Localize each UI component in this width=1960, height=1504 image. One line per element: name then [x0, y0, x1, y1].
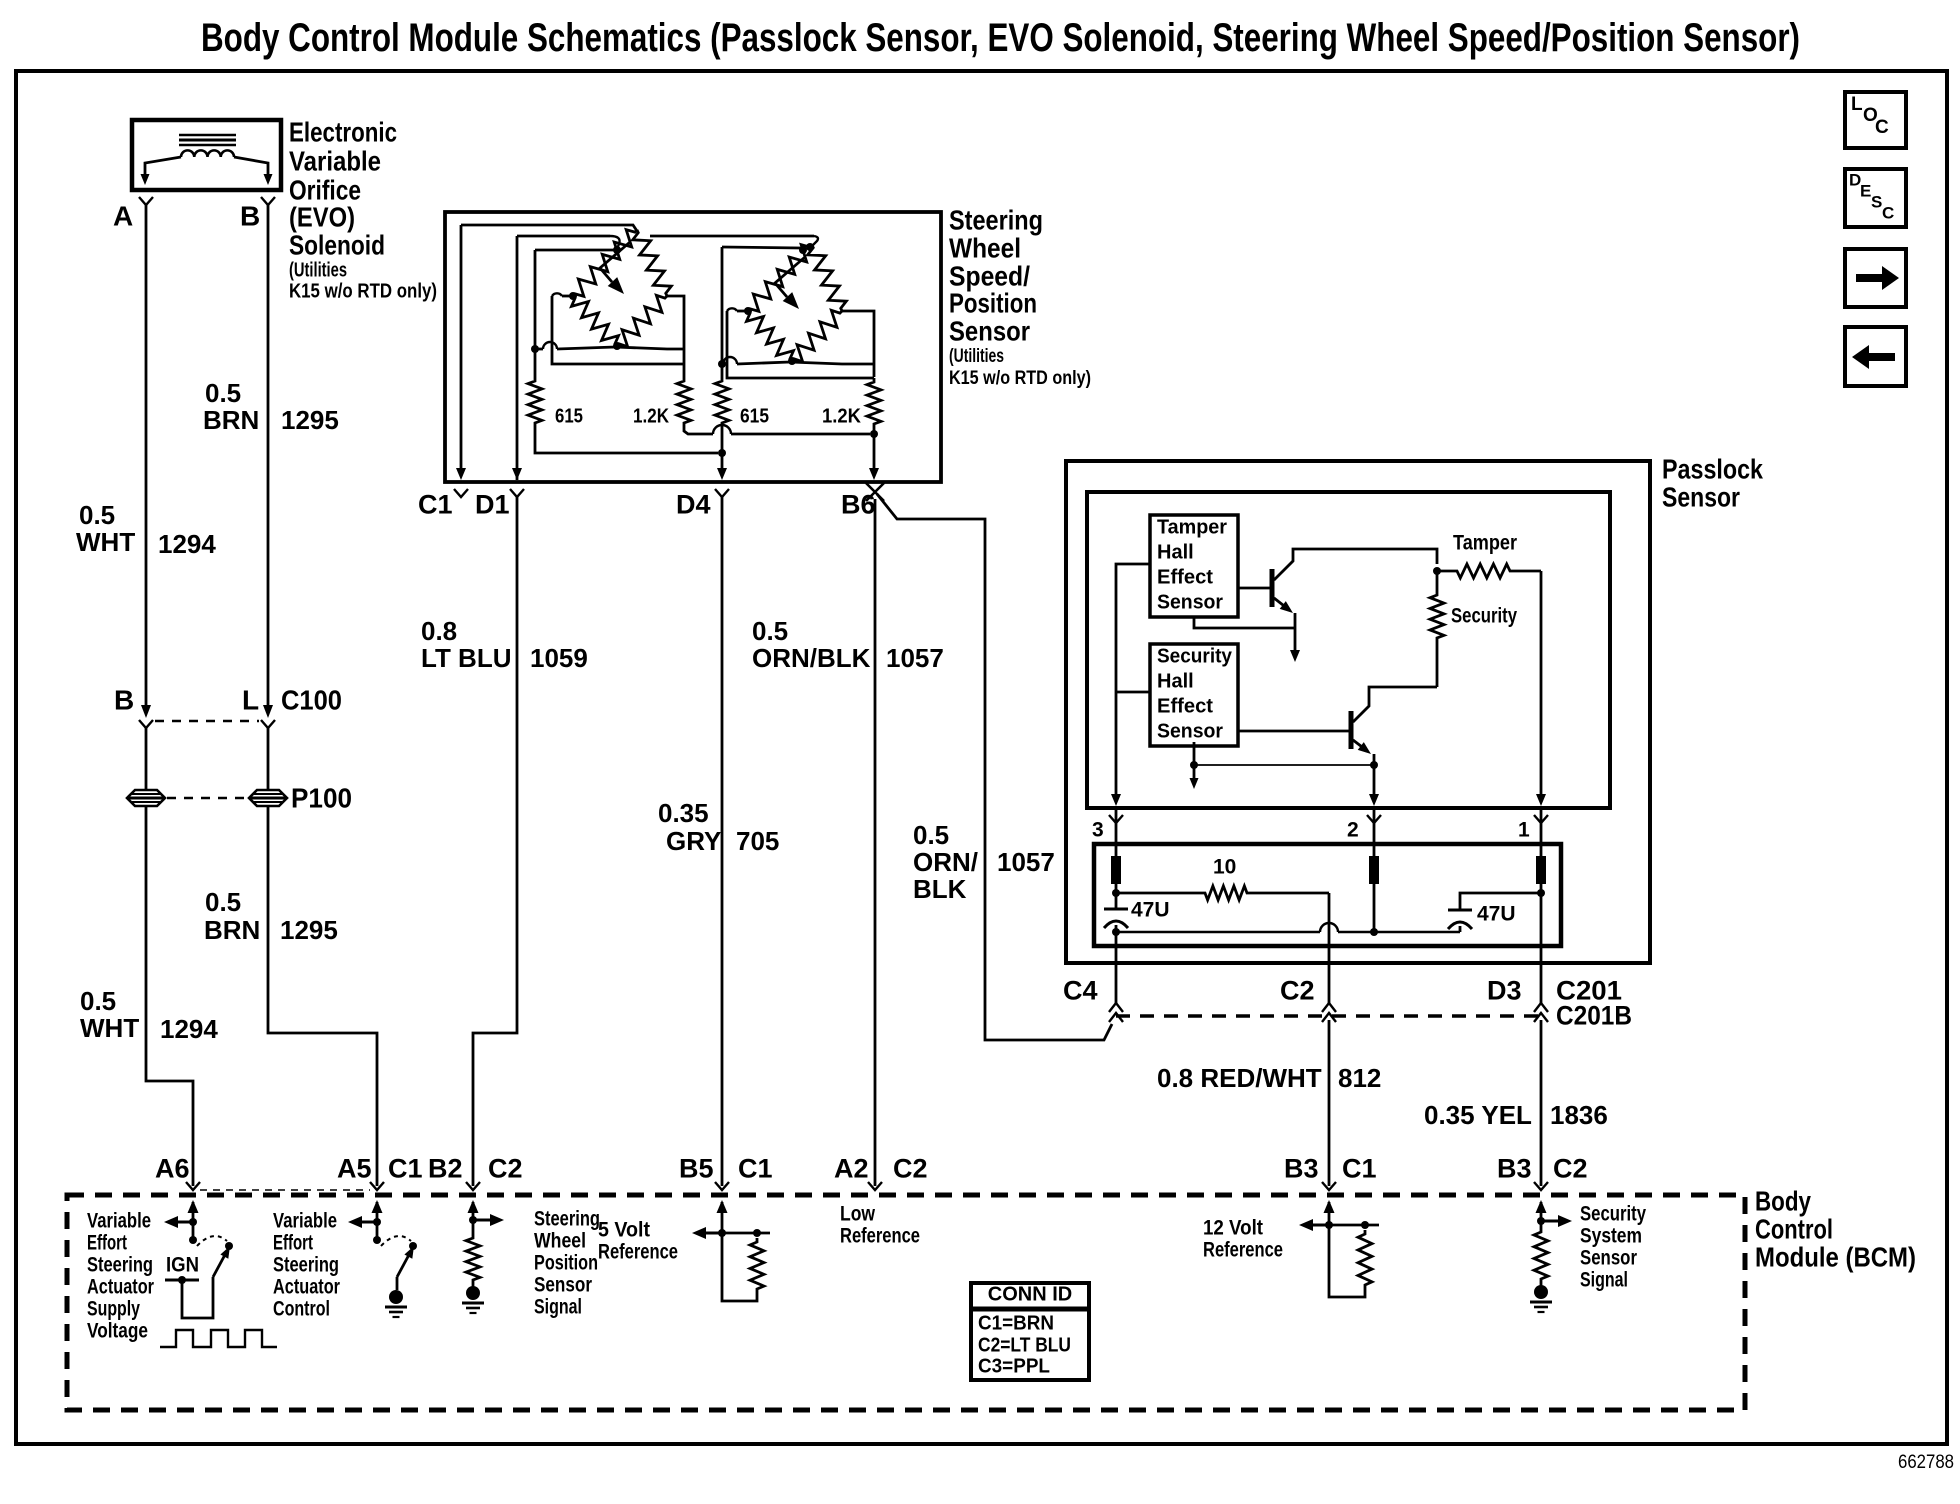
svg-text:47U: 47U — [1477, 902, 1516, 925]
svg-text:1: 1 — [1518, 818, 1530, 841]
label A — [113, 200, 133, 231]
svg-text:Body: Body — [1755, 1185, 1811, 1216]
label C100 — [281, 684, 342, 715]
CONN ID table — [971, 1283, 1089, 1380]
bridge 1 bottom-right resistor — [617, 295, 667, 346]
svg-text:Sensor: Sensor — [534, 1273, 592, 1296]
svg-text:B6: B6 — [841, 490, 876, 520]
passlock pin 1 wire — [1540, 808, 1543, 856]
BCM pin connector A2 — [868, 1182, 882, 1190]
svg-text:C3=PPL: C3=PPL — [978, 1356, 1050, 1378]
connector D4 below box — [715, 489, 729, 497]
label C201B — [1556, 1001, 1632, 1031]
svg-text:Tamper: Tamper — [1453, 531, 1517, 554]
svg-text:C1=BRN: C1=BRN — [978, 1313, 1054, 1335]
label Variable Effort Steering Actuator Control — [273, 1209, 340, 1320]
wire BRN between C100 and P100 — [267, 728, 270, 789]
label 0.5 WHT 1294 upper — [76, 500, 216, 559]
bridge 1 top-right resistor — [633, 230, 672, 296]
bridge 1 wiper arrow — [600, 242, 630, 294]
BCM B3C2 resistor — [1534, 1221, 1548, 1283]
svg-text:CONN ID: CONN ID — [988, 1284, 1072, 1306]
junction pin1 node — [1537, 889, 1545, 897]
svg-text:Security: Security — [1451, 604, 1517, 627]
label Variable Effort Steering Actuator Supply Voltage — [87, 1209, 154, 1342]
svg-text:Tamper: Tamper — [1157, 517, 1227, 539]
bridge 2 top-left resistor — [748, 245, 812, 312]
junction pin2 bottom — [1370, 928, 1378, 936]
svg-text:615: 615 — [740, 406, 769, 428]
svg-text:0.8: 0.8 — [421, 616, 457, 646]
svg-text:C2: C2 — [1280, 976, 1315, 1006]
connector D3 symbol — [1534, 1003, 1548, 1022]
capacitor 47U right — [1448, 910, 1472, 932]
svg-text:Sensor: Sensor — [1580, 1246, 1637, 1269]
BCM A5 ground — [385, 1277, 407, 1317]
wire H3 tap feed — [535, 249, 614, 252]
svg-text:1294: 1294 — [158, 529, 216, 559]
BCM B2 resistor — [466, 1220, 480, 1284]
svg-text:662788: 662788 — [1898, 1452, 1954, 1473]
resistor 615 bridge1 — [528, 377, 542, 427]
svg-text:Actuator: Actuator — [273, 1275, 340, 1298]
junction D4 node — [718, 449, 726, 457]
svg-text:Steering: Steering — [534, 1207, 600, 1230]
svg-text:A: A — [113, 200, 133, 231]
BCM B2 ground — [462, 1284, 484, 1313]
bottom rail with hop over C2 wire — [1116, 923, 1460, 932]
resistor 1.2K bridge1 — [677, 377, 691, 427]
svg-text:B3: B3 — [1497, 1154, 1532, 1184]
bridge 2 bottom-left resistor — [746, 311, 793, 361]
svg-text:Security: Security — [1580, 1202, 1646, 1225]
EVO coil right lead wire — [234, 157, 273, 185]
connector C100 pin B arrow — [139, 705, 153, 728]
svg-text:Security: Security — [1157, 646, 1233, 668]
splice B6 — [866, 483, 884, 501]
svg-text:0.5: 0.5 — [79, 500, 115, 530]
connector C4 symbol — [1109, 1003, 1123, 1022]
svg-text:C2: C2 — [893, 1154, 928, 1184]
EVO terminal A connector — [139, 197, 153, 205]
svg-text:Sensor: Sensor — [1157, 721, 1223, 743]
svg-text:Actuator: Actuator — [87, 1275, 154, 1298]
connector P100 left lens — [127, 790, 165, 806]
label 1.2K bridge1 — [633, 406, 669, 428]
svg-text:705: 705 — [736, 826, 779, 856]
bridge 1 bottom vertex junction — [613, 342, 621, 350]
junction cap left bottom — [1112, 928, 1120, 936]
svg-text:Body Control Module Schematics: Body Control Module Schematics (Passlock… — [201, 16, 1800, 60]
pin terminal 2 — [1369, 856, 1379, 884]
wire security box bottom drop — [1190, 742, 1375, 789]
junction Q2 emitter node — [1370, 761, 1378, 769]
EVO terminal B connector — [261, 197, 275, 205]
svg-text:BRN: BRN — [203, 405, 259, 435]
label 1.2K bridge2 — [822, 406, 862, 428]
svg-text:(Utilities: (Utilities — [289, 260, 347, 282]
bridge 2 inner loop — [727, 308, 874, 378]
svg-text:C2: C2 — [488, 1154, 523, 1184]
svg-text:B3: B3 — [1284, 1154, 1319, 1184]
bridge 2 right vertex drop — [842, 311, 874, 377]
label D4 steering — [676, 490, 711, 520]
label B6 steering — [841, 490, 876, 520]
svg-text:Control: Control — [1755, 1213, 1833, 1244]
wire pin2 down — [1373, 884, 1376, 932]
svg-text:2: 2 — [1347, 818, 1359, 841]
BCM B3C2 junction — [1537, 1217, 1545, 1225]
svg-text:1059: 1059 — [530, 643, 588, 673]
connector C100 dashed line — [155, 720, 259, 723]
BCM A5 switch contact — [409, 1242, 417, 1250]
svg-text:Position: Position — [949, 287, 1037, 318]
svg-text:WHT: WHT — [76, 527, 135, 557]
button DESC — [1845, 169, 1906, 227]
bridge 1 right vertex drop — [667, 296, 684, 377]
passlock pin 3 wire — [1115, 808, 1118, 856]
wire D4 vertical lower — [717, 427, 727, 480]
label D3 — [1487, 976, 1522, 1006]
label 12 Volt Reference — [1203, 1216, 1283, 1261]
svg-text:Variable: Variable — [273, 1209, 337, 1232]
svg-text:Hall: Hall — [1157, 542, 1194, 564]
BCM A6 pulse waveform — [160, 1330, 277, 1347]
label A5 — [337, 1154, 372, 1184]
title text — [201, 16, 1800, 60]
svg-text:Reference: Reference — [1203, 1238, 1283, 1261]
pin terminal 1 — [1536, 856, 1546, 884]
svg-text:12 Volt: 12 Volt — [1203, 1216, 1263, 1239]
label Steering Wheel Speed/Position Sensor — [949, 204, 1091, 389]
wire pin1 down to D3 — [1540, 884, 1543, 1004]
BCM A6 switch contact — [225, 1242, 233, 1250]
label P100 — [291, 782, 352, 813]
EVO inductor coil — [181, 150, 234, 157]
resistor 1.2K bridge2 — [867, 378, 881, 428]
wire ORN/BLK 1057 branch to passlock — [877, 494, 1112, 1040]
wire WHT to BCM A6 — [146, 807, 193, 1186]
label L at C100 — [242, 684, 259, 715]
wire cap right top feed — [1460, 893, 1541, 910]
BCM B5 junction — [718, 1229, 726, 1237]
BCM A6 switch dashed arc — [197, 1236, 227, 1246]
bridge 1 bottom rail with hop — [535, 342, 684, 349]
label B2 — [428, 1154, 463, 1184]
bridge 2 wiper arrow — [775, 257, 805, 309]
junction J2 bridge2 — [718, 360, 726, 368]
connector P100 right lens — [249, 790, 287, 806]
bridge 2 top vertex junction — [799, 243, 814, 254]
label 0.5 ORN/BLK 1057 branch — [913, 820, 1055, 904]
svg-text:D4: D4 — [676, 490, 711, 520]
connector C100 pin L arrow — [261, 705, 275, 728]
svg-text:Signal: Signal — [534, 1295, 582, 1318]
wire D1 vertical — [512, 236, 522, 480]
svg-text:C2: C2 — [1553, 1154, 1588, 1184]
transistor Q2 collector — [1353, 692, 1369, 722]
transistor Q1 base — [1238, 569, 1272, 607]
label 5 Volt Reference — [598, 1218, 678, 1263]
label 0.8 RED/WHT 812 — [1157, 1063, 1381, 1093]
junction J2 bridge1 — [531, 345, 539, 353]
svg-text:1.2K: 1.2K — [822, 406, 862, 428]
tamper hall effect sensor box — [1150, 515, 1238, 617]
label Security System Sensor Signal — [1580, 1202, 1646, 1291]
resistor Tamper — [1437, 564, 1541, 578]
thin dashed connector line A6-A5 — [200, 1189, 370, 1191]
connector P100 dashed line — [167, 797, 247, 800]
connector D1 below box — [510, 489, 524, 497]
svg-text:10: 10 — [1213, 855, 1236, 878]
label 0.5 BRN 1295 upper — [203, 378, 339, 435]
label 0.5 WHT 1294 lower — [80, 986, 218, 1044]
label C4 — [1063, 976, 1098, 1006]
svg-text:IGN: IGN — [166, 1253, 199, 1276]
passlock sensor outer box — [1066, 461, 1650, 963]
label 10 — [1213, 855, 1236, 878]
label C1 conn — [1342, 1154, 1377, 1184]
svg-text:1.2K: 1.2K — [633, 406, 669, 428]
label A6 — [155, 1154, 190, 1184]
label C2 conn — [488, 1154, 523, 1184]
svg-text:C1: C1 — [738, 1154, 773, 1184]
label Passlock Sensor — [1662, 453, 1763, 512]
svg-text:C201B: C201B — [1556, 1001, 1632, 1031]
label D1 steering — [475, 490, 510, 520]
svg-text:0.5: 0.5 — [205, 378, 241, 408]
svg-text:A6: A6 — [155, 1154, 190, 1184]
wire WHT 1294 upper segment — [145, 205, 148, 706]
svg-text:C4: C4 — [1063, 976, 1098, 1006]
svg-text:Electronic: Electronic — [289, 116, 397, 147]
passlock pin 3 connector — [1092, 815, 1123, 841]
label C201 — [1556, 976, 1622, 1006]
wire C1 vertical — [456, 225, 466, 480]
EVO core lines — [179, 135, 236, 145]
passlock pin1 wire — [1536, 571, 1546, 806]
BCM pin connector A6 — [186, 1182, 200, 1190]
BCM A5 junction — [373, 1218, 381, 1226]
transistor Q1 emitter — [1274, 598, 1300, 662]
label 0.8 LT BLU 1059 — [421, 616, 588, 673]
wire BRN 1295 upper segment — [267, 205, 270, 706]
bridge 1 inner loop — [552, 293, 684, 364]
passlock pin 1 connector — [1518, 815, 1548, 841]
svg-text:1295: 1295 — [281, 405, 339, 435]
BCM B3C2 entry arrow — [1536, 1200, 1547, 1221]
label C2 conn — [1553, 1154, 1588, 1184]
BCM A6 switch blade — [213, 1246, 230, 1277]
label C2 at C201 — [1280, 976, 1315, 1006]
label Body Control Module (BCM) — [1755, 1185, 1916, 1272]
BCM B3C1 junction — [1325, 1221, 1333, 1229]
svg-text:C1: C1 — [418, 490, 453, 520]
svg-text:5 Volt: 5 Volt — [598, 1218, 650, 1241]
label 615 bridge2 — [740, 406, 769, 428]
svg-text:Reference: Reference — [598, 1240, 678, 1263]
capacitor 47U left — [1104, 909, 1128, 932]
BCM B2 right arrow — [473, 1214, 504, 1226]
svg-text:1295: 1295 — [280, 915, 338, 945]
passlock pin 2 connector — [1347, 815, 1381, 841]
label B5 — [679, 1154, 714, 1184]
label B3 — [1284, 1154, 1319, 1184]
button back arrow — [1845, 327, 1906, 386]
label 47U left — [1131, 898, 1170, 921]
resistor 615 bridge2 — [715, 377, 729, 427]
svg-text:Module (BCM): Module (BCM) — [1755, 1241, 1916, 1272]
wire 1.2Ka bottom rail with hop over D4 — [684, 425, 870, 434]
bridge 1 bottom-left resistor — [571, 296, 618, 346]
label Electronic Variable Orifice (EVO) Solenoid — [289, 116, 437, 302]
wire BRN to BCM A5 — [268, 807, 377, 1186]
wire 615a top lead — [534, 250, 537, 377]
wire tamper box bottom to Q1 emitter — [1194, 617, 1295, 628]
svg-text:Hall: Hall — [1157, 671, 1194, 693]
connector C1 below box — [454, 489, 468, 497]
wire 1.2Kb bottom — [869, 428, 879, 480]
button next arrow — [1845, 249, 1906, 307]
svg-text:C1: C1 — [1342, 1154, 1377, 1184]
svg-text:Variable: Variable — [87, 1209, 151, 1232]
BCM B3C1 left arrow — [1299, 1219, 1329, 1231]
wire ORN/BLK 1057 to A2 — [874, 499, 877, 1186]
wire GRY 705 — [721, 497, 724, 1186]
passlock security box left stub — [1116, 691, 1150, 694]
svg-text:D3: D3 — [1487, 976, 1522, 1006]
svg-text:P100: P100 — [291, 782, 352, 813]
label 0.5 ORN/BLK 1057 — [752, 616, 944, 673]
svg-text:E: E — [1860, 181, 1871, 200]
svg-text:Variable: Variable — [289, 145, 381, 176]
junction security drop node — [1190, 761, 1198, 769]
wire security resistor to Q2 collector — [1369, 687, 1437, 692]
svg-text:Wheel: Wheel — [534, 1229, 586, 1252]
BCM A6 junction — [189, 1218, 197, 1226]
wire YEL 1836 — [1540, 1020, 1543, 1186]
svg-text:Steering: Steering — [949, 204, 1043, 235]
svg-text:Steering: Steering — [273, 1253, 339, 1276]
BCM A5 left arrow — [348, 1216, 377, 1228]
bridge 1 left vertex junction — [569, 292, 577, 300]
label Steering Wheel Position Sensor Signal — [534, 1207, 600, 1318]
svg-text:Effect: Effect — [1157, 696, 1213, 718]
svg-text:Reference: Reference — [840, 1224, 920, 1247]
BCM B2 entry arrow — [468, 1200, 479, 1220]
passlock left supply wire — [1111, 564, 1150, 806]
svg-text:0.5: 0.5 — [80, 986, 116, 1016]
button LOC — [1845, 92, 1906, 148]
svg-text:Effort: Effort — [87, 1231, 127, 1254]
connector C2 symbol — [1322, 1003, 1336, 1022]
label Low Reference — [840, 1202, 920, 1247]
svg-text:Voltage: Voltage — [87, 1319, 148, 1342]
steering sensor box — [445, 212, 941, 482]
svg-text:Sensor: Sensor — [1157, 592, 1223, 614]
wire LT BLU 1059 — [473, 497, 517, 1186]
svg-text:C: C — [1875, 117, 1889, 138]
transistor Q2 emitter — [1353, 740, 1379, 806]
BCM A5 switch pivot — [373, 1222, 381, 1244]
junction tamper-security node — [1433, 567, 1441, 575]
svg-text:(EVO): (EVO) — [289, 201, 355, 232]
EVO solenoid box — [132, 120, 281, 190]
svg-text:S: S — [1871, 192, 1882, 211]
wire bridge1-to-bridge2 top — [650, 236, 818, 246]
resistor Security — [1430, 571, 1444, 687]
svg-text:WHT: WHT — [80, 1013, 139, 1043]
svg-text:ORN/: ORN/ — [913, 847, 978, 877]
wire 615a bottom to D4 node — [535, 427, 718, 453]
svg-text:Control: Control — [273, 1297, 330, 1320]
label 47U right — [1477, 902, 1516, 925]
svg-text:0.8 RED/WHT: 0.8 RED/WHT — [1157, 1063, 1322, 1093]
wire D1 top horizontal — [517, 236, 620, 249]
transistor Q2 base — [1238, 711, 1351, 749]
svg-text:Sensor: Sensor — [949, 315, 1030, 346]
svg-text:Wheel: Wheel — [949, 232, 1021, 263]
wire pin3 to junction — [1112, 884, 1120, 909]
pin terminal 3 — [1111, 856, 1121, 884]
passlock connector box — [1094, 844, 1561, 946]
svg-text:Solenoid: Solenoid — [289, 229, 385, 260]
svg-text:B: B — [114, 684, 134, 715]
label Tamper resistor — [1453, 531, 1517, 554]
wire pin3 down to C4 — [1115, 932, 1118, 1004]
drawing number 662788 — [1898, 1452, 1954, 1473]
svg-text:0.5: 0.5 — [205, 887, 241, 917]
svg-text:615: 615 — [555, 406, 583, 428]
BCM A6 IGN wire — [165, 1276, 213, 1318]
resistor 10 — [1116, 886, 1329, 900]
wire D4 vertical upper — [721, 247, 724, 377]
svg-text:L: L — [1851, 94, 1863, 115]
svg-text:Signal: Signal — [1580, 1268, 1628, 1291]
svg-text:C: C — [1882, 203, 1894, 222]
label 0.35 YEL 1836 — [1424, 1100, 1608, 1130]
svg-text:Passlock: Passlock — [1662, 453, 1763, 484]
BCM B5 resistor loop — [722, 1229, 770, 1301]
svg-text:L: L — [242, 684, 259, 715]
security hall effect sensor box — [1150, 644, 1238, 746]
svg-text:C1: C1 — [388, 1154, 423, 1184]
svg-text:BRN: BRN — [204, 915, 260, 945]
svg-text:BLK: BLK — [913, 874, 967, 904]
wire RED/WHT 812 — [1328, 1020, 1331, 1186]
label IGN — [166, 1253, 199, 1276]
svg-text:3: 3 — [1092, 818, 1104, 841]
svg-text:GRY: GRY — [666, 826, 721, 856]
svg-text:1057: 1057 — [886, 643, 944, 673]
svg-text:K15 w/o RTD only): K15 w/o RTD only) — [289, 281, 437, 303]
label A2 — [834, 1154, 869, 1184]
bridge 1 top-left resistor — [573, 230, 637, 297]
wire WHT between C100 and P100 — [145, 728, 148, 789]
svg-text:Low: Low — [840, 1202, 876, 1225]
svg-text:0.5: 0.5 — [752, 616, 788, 646]
BCM A6 switch pivot — [189, 1222, 197, 1244]
BCM B3C2 right arrow — [1541, 1215, 1572, 1227]
wire D4 top feed — [722, 247, 801, 248]
svg-text:0.35: 0.35 — [658, 798, 709, 828]
svg-text:0.5: 0.5 — [913, 820, 949, 850]
svg-text:ORN/BLK: ORN/BLK — [752, 643, 871, 673]
svg-text:C2=LT BLU: C2=LT BLU — [978, 1335, 1071, 1357]
svg-text:812: 812 — [1338, 1063, 1381, 1093]
svg-text:47U: 47U — [1131, 898, 1170, 921]
svg-text:Effect: Effect — [1157, 567, 1213, 589]
